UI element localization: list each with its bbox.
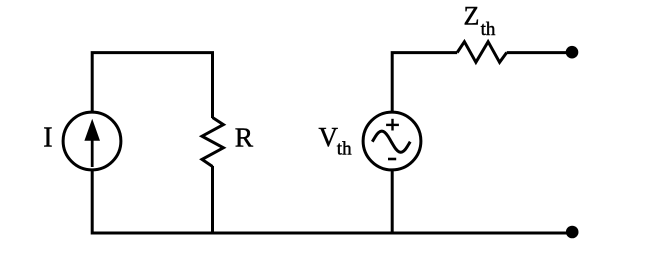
resistor Zth — [457, 42, 507, 63]
svg-text:Z: Z — [464, 2, 480, 31]
wire bottom rail — [92, 169, 572, 233]
wire Vth bottom lead — [391, 169, 394, 235]
svg-text:R: R — [235, 122, 254, 153]
terminal bottom — [566, 226, 579, 239]
current source I1 — [63, 112, 121, 170]
svg-text:V: V — [319, 122, 339, 152]
terminal top — [566, 46, 579, 59]
wire R bottom lead — [211, 166, 214, 235]
voltage source V1 — [363, 112, 421, 170]
wire top-left rail — [92, 53, 212, 118]
wire Vth top lead and top-right rail — [392, 53, 457, 113]
svg-text:I: I — [43, 122, 52, 153]
wire Zth to top terminal — [507, 51, 571, 54]
svg-text:th: th — [337, 139, 352, 160]
resistor R1 — [202, 118, 223, 167]
svg-text:th: th — [481, 19, 496, 40]
